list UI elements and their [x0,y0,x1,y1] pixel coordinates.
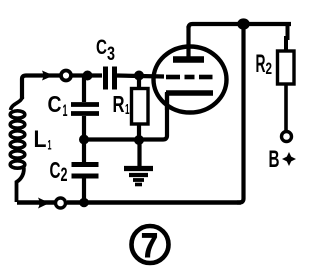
capacitor C1 branch lead [82,76,86,103]
plate lead [186,26,190,58]
node junction mid-left [79,135,89,145]
arrowhead on bottom lead [38,198,50,209]
inductor L1 loop 5 [10,151,25,158]
node junction at R1 top [134,71,144,81]
svg-text:C: C [96,36,107,59]
capacitor C1 top plate [71,102,99,107]
inductor L1 loop 3 [10,131,25,138]
inductor L1 bottom connector [17,166,24,202]
inductor L1 loop 2 [10,121,25,128]
terminal (open circle) bottom-left [56,198,66,208]
figure number circle [132,226,169,263]
node junction top-right [237,18,250,29]
terminal B+ (open circle) [282,132,292,142]
wire top-left horizontal from tank corner to grid [22,76,60,100]
capacitor C1 bottom plate [71,111,99,116]
resistor R2 bottom lead [284,84,288,132]
wire from C3 to grid [117,76,164,77]
ground bar 3 [133,178,144,182]
grid dash 1 [166,75,180,80]
svg-text:2: 2 [61,165,68,186]
svg-text:B: B [269,146,280,173]
wire plate to top rail [189,24,292,28]
ground bar 2 [129,173,148,177]
terminal (open circle) top-left [61,71,71,81]
capacitor C3 left plate [103,67,108,90]
svg-text:1: 1 [63,101,68,120]
svg-text:L: L [34,126,47,153]
resistor R2 body [278,51,295,84]
inductor L1 loop 1 [10,111,25,118]
grid dash 3 [199,75,213,80]
node junction mid-right [134,135,144,145]
cathode lead [165,93,169,110]
svg-text:R: R [256,50,266,78]
grid dash 2 [185,75,195,80]
capacitor C2 bottom plate [72,174,99,179]
wire bottom-left horizontal [17,200,55,205]
svg-text:C: C [50,157,61,183]
triode envelope U1 [154,47,227,113]
plate bar [173,56,204,63]
svg-text:7: 7 [141,227,158,265]
inductor L1 loop 4 [10,141,25,148]
svg-text:2: 2 [266,59,273,78]
resistor R1 body [132,89,149,125]
resistor R2 top lead [286,22,288,51]
capacitor C2 branch lead [82,140,86,163]
ground bar 1 [124,166,153,171]
ground stub [137,140,141,166]
svg-text:C: C [48,91,62,117]
svg-text:3: 3 [107,44,115,65]
svg-text:1: 1 [48,137,52,153]
wire bottom rail [67,200,241,205]
capacitor C2 top plate [72,162,99,167]
svg-text:R: R [113,91,125,117]
wire from top terminal to C3 [72,73,102,77]
wire C1 to mid node [82,116,86,140]
node junction at C2 bottom [79,198,89,208]
resistor R1 bottom lead [137,124,141,141]
cathode bar [166,90,213,96]
resistor R1 top lead [137,76,141,90]
svg-text:1: 1 [125,101,130,118]
wire C2 to bottom rail [82,178,86,203]
ground bar 4 [135,183,142,187]
wire right vertical to bottom rail [237,24,244,203]
inductor L1 coil top connector [11,97,23,110]
inductor L1 loop 6 [10,161,25,168]
node junction at C1 top [83,71,93,81]
capacitor C3 right plate [112,67,117,90]
arrowhead on top lead [42,71,54,81]
wire mid horizontal to cathode [84,92,167,140]
